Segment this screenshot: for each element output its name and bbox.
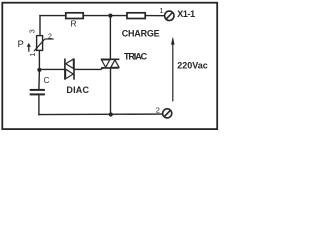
svg-text:C: C [44, 76, 50, 85]
terminal X1-2 circle [163, 109, 172, 118]
capacitor C bottom plate [30, 93, 45, 95]
diac left bar [64, 59, 66, 80]
resistor R [66, 13, 83, 19]
node bottom junction dot [109, 112, 113, 116]
node top junction dot [108, 14, 112, 18]
svg-text:R: R [71, 19, 77, 29]
wire bottom rail [39, 113, 163, 116]
node A junction dot [37, 68, 41, 72]
220Vac dimension arrow [171, 37, 175, 102]
wire junction to CHARGE resistor [110, 15, 126, 17]
capacitor C top plate [30, 89, 45, 91]
svg-text:1: 1 [30, 53, 37, 57]
svg-text:CHARGE: CHARGE [122, 28, 160, 38]
wire top horizontal left (to R) [40, 15, 66, 17]
wire R to junction [83, 15, 110, 17]
diac right bar [73, 59, 75, 80]
wire capacitor to bottom rail [38, 95, 40, 114]
wire junction A to DIAC [39, 68, 64, 70]
svg-text:2: 2 [156, 106, 160, 115]
diac D1 [65, 59, 74, 80]
triac left triangle [102, 60, 110, 67]
potentiometer adjust arrow [27, 43, 31, 52]
svg-text:X1-1: X1-1 [177, 9, 195, 19]
svg-text:DIAC: DIAC [66, 85, 89, 95]
wire top-left vertical (node to P pin 3) [39, 16, 41, 36]
potentiometer P body [37, 36, 43, 51]
wire P pin1 down to junction A [38, 50, 40, 69]
potentiometer wiper diagonal [34, 39, 45, 51]
wire CHARGE to terminal X1-1 [146, 15, 165, 17]
wire TRIAC MT1 down to bottom junction [110, 68, 112, 115]
triac top bar [101, 58, 120, 60]
svg-text:220Vac: 220Vac [177, 60, 208, 70]
diac bottom triangle [66, 69, 74, 79]
wire TRIAC MT2 up to top junction [109, 16, 111, 59]
terminal X1-1 circle [165, 11, 174, 20]
resistor CHARGE [127, 13, 145, 19]
wire DIAC to TRIAC gate [74, 68, 103, 70]
svg-text:TRIAC: TRIAC [124, 51, 148, 61]
potentiometer wiper stub pin 2 [45, 38, 54, 40]
svg-text:1: 1 [159, 6, 163, 15]
svg-text:P: P [18, 39, 24, 50]
triac T1 [101, 59, 120, 68]
triac right triangle [111, 60, 119, 67]
svg-text:2: 2 [48, 33, 52, 40]
diac top triangle [66, 59, 74, 68]
triac bottom bar [101, 67, 119, 69]
border frame [2, 3, 217, 129]
svg-text:3: 3 [29, 29, 36, 33]
wire junction A down to capacitor [38, 70, 41, 90]
